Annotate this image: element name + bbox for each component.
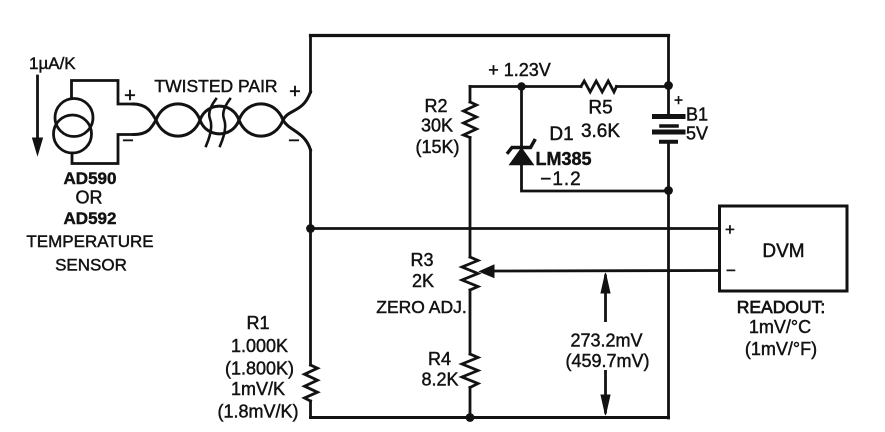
1uA/K current direction arrow: [36, 76, 39, 140]
resistor R1: [305, 365, 318, 401]
battery B1 positive long plate: [655, 114, 684, 119]
svg-text:LM385: LM385: [535, 149, 591, 169]
svg-text:−: −: [122, 130, 134, 152]
svg-text:8.2K: 8.2K: [421, 370, 458, 390]
resistor R5: [581, 81, 617, 92]
wire DVM minus lead from R3 wiper to DVM box: [492, 269, 719, 272]
svg-text:−1.2: −1.2: [540, 169, 582, 190]
svg-text:2K: 2K: [412, 271, 434, 291]
wire top rail from AD590 plus lead to battery plus: [311, 34, 669, 37]
wire left rail: twisted pair minus lead down to R1: [309, 150, 312, 365]
junction dot bottom rail at R4: [466, 413, 475, 422]
svg-text:D1: D1: [549, 124, 573, 145]
wire R2 top stub: [469, 87, 472, 103]
svg-text:+: +: [725, 220, 735, 239]
twisted pair break mark right: [220, 99, 230, 146]
svg-text:+: +: [124, 85, 136, 107]
svg-text:(1.8mV/K): (1.8mV/K): [217, 402, 298, 422]
svg-text:(459.7mV): (459.7mV): [565, 351, 649, 371]
svg-text:SENSOR: SENSOR: [55, 256, 127, 275]
svg-text:OR: OR: [76, 188, 103, 208]
svg-text:(15K): (15K): [415, 137, 459, 157]
current source AD590 lower circle: [54, 115, 92, 153]
wire twisted pair plus lead up to top rail: [309, 36, 312, 93]
wire right rail from top rail down to battery positive plate: [667, 36, 670, 115]
DVM box: [720, 206, 848, 291]
svg-text:1mV/K: 1mV/K: [231, 379, 285, 399]
wire current source top lead: [72, 81, 134, 105]
resistor R2: [464, 102, 477, 138]
svg-text:R1: R1: [246, 313, 269, 333]
svg-text:+ 1.23V: + 1.23V: [488, 60, 551, 80]
R3 wiper arrowhead: [480, 265, 495, 278]
svg-text:1.000K: 1.000K: [231, 336, 288, 356]
twisted pair conductor A (plus side, weaves bottom-top-bottom): [133, 92, 311, 136]
potentiometer R3 body: [462, 257, 478, 290]
svg-text:R3: R3: [410, 250, 433, 270]
svg-text:READOUT:: READOUT:: [737, 297, 825, 317]
wire right rail from battery negative down to bottom rail: [667, 144, 670, 418]
svg-text:−: −: [288, 130, 300, 152]
wire DVM plus lead from left rail to DVM box: [311, 227, 720, 230]
battery B1 long plate 2: [655, 130, 684, 135]
svg-text:273.2mV: 273.2mV: [570, 331, 642, 351]
zener diode D1 anode triangle: [510, 149, 533, 165]
svg-text:1mV/°C: 1mV/°C: [749, 317, 811, 337]
junction dot left rail at DVM plus wire: [306, 224, 315, 233]
svg-text:3.6K: 3.6K: [581, 121, 620, 142]
wire middle branch from R2 bottom down to R3 top (crosses DVM+ wire): [469, 138, 472, 258]
svg-text:B1: B1: [686, 105, 708, 125]
junction dot right rail at D1 anode loop: [664, 186, 673, 195]
svg-text:ZERO ADJ.: ZERO ADJ.: [376, 297, 466, 317]
junction dot right rail at R5/battery: [664, 81, 673, 90]
wire R3 bottom to R4 top: [469, 290, 472, 354]
wire D1 cathode stub from +1.23V node: [520, 87, 523, 147]
svg-text:30K: 30K: [421, 116, 453, 136]
current source AD590 upper circle: [55, 99, 93, 137]
resistor R4: [462, 354, 478, 388]
svg-text:(1.800K): (1.800K): [225, 359, 294, 379]
svg-text:AD592: AD592: [64, 209, 117, 228]
wire +1.23V node rail from R2 top to R5 left: [470, 85, 581, 88]
battery B1 short plate 1: [661, 124, 677, 128]
wire R4 bottom to bottom rail: [469, 388, 472, 418]
svg-text:AD590: AD590: [64, 169, 117, 188]
wire bottom rail (ground return): [311, 416, 669, 419]
svg-text:TWISTED PAIR: TWISTED PAIR: [154, 76, 277, 96]
wire R1 bottom to bottom rail: [309, 401, 312, 418]
svg-text:+: +: [289, 81, 301, 103]
measurement arrow 273.2mV from DVM minus wire to bottom rail: [604, 276, 607, 412]
zener diode D1 cathode bar: [508, 141, 535, 153]
battery B1 negative short plate: [661, 140, 676, 144]
white mask behind measurement labels: [560, 322, 654, 370]
svg-text:+: +: [674, 93, 683, 110]
svg-text:TEMPERATURE: TEMPERATURE: [26, 232, 153, 251]
wire current source bottom lead: [72, 135, 134, 164]
junction dot +1.23V node at D1: [517, 82, 525, 90]
svg-text:(1mV/°F): (1mV/°F): [745, 339, 817, 359]
svg-text:R4: R4: [428, 349, 451, 369]
svg-text:R2: R2: [424, 96, 447, 116]
svg-text:R5: R5: [588, 98, 612, 119]
twisted pair conductor B (minus side, weaves top-bottom-top): [134, 104, 311, 150]
svg-text:1µA/K: 1µA/K: [29, 54, 76, 73]
wire R5 right to right rail: [617, 85, 669, 88]
svg-text:DVM: DVM: [762, 241, 804, 262]
svg-text:5V: 5V: [686, 124, 708, 144]
svg-text:−: −: [726, 261, 736, 280]
twisted pair break mark left: [206, 99, 216, 146]
wire D1 anode down and right to right rail (battery minus loop): [522, 165, 669, 192]
